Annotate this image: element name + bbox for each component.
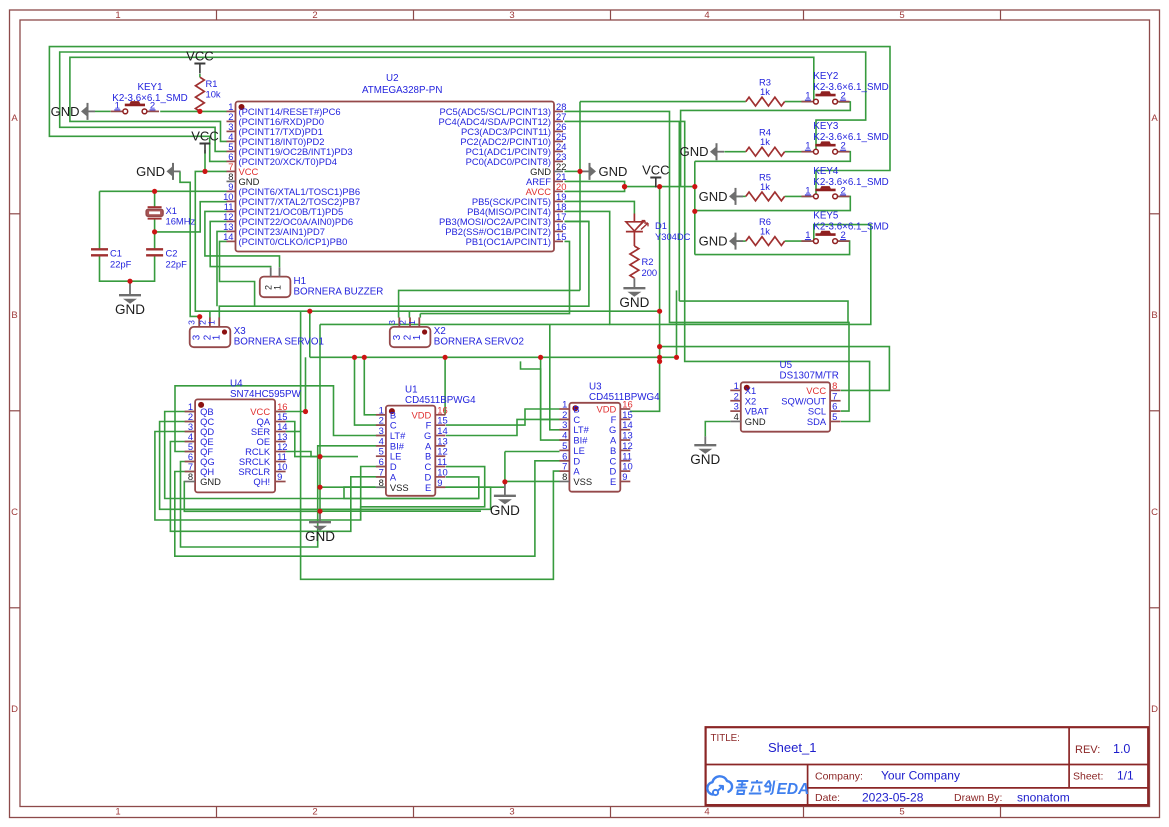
svg-text:Drawn By:: Drawn By: xyxy=(954,792,1002,804)
svg-text:9: 9 xyxy=(437,477,442,488)
svg-text:9: 9 xyxy=(277,471,282,482)
svg-text:E: E xyxy=(425,482,431,493)
svg-text:1: 1 xyxy=(207,320,217,325)
svg-text:1k: 1k xyxy=(760,136,770,147)
svg-text:D1: D1 xyxy=(655,220,667,231)
svg-text:B: B xyxy=(1151,310,1157,321)
svg-text:14: 14 xyxy=(437,425,447,436)
svg-text:6: 6 xyxy=(562,450,567,461)
svg-text:1k: 1k xyxy=(760,86,770,97)
svg-text:KEY5: KEY5 xyxy=(813,211,839,222)
svg-text:11: 11 xyxy=(437,456,447,467)
svg-text:TITLE:: TITLE: xyxy=(711,733,740,744)
svg-text:U3: U3 xyxy=(589,382,602,393)
svg-text:LE: LE xyxy=(390,451,401,462)
svg-text:REV:: REV: xyxy=(1075,744,1100,756)
svg-text:A: A xyxy=(610,435,617,446)
svg-text:4: 4 xyxy=(704,10,709,21)
svg-text:CD4511BPWG4: CD4511BPWG4 xyxy=(405,395,476,406)
svg-text:VDD: VDD xyxy=(412,409,432,420)
svg-text:X1: X1 xyxy=(166,205,177,216)
svg-text:12: 12 xyxy=(437,446,447,457)
svg-text:BI#: BI# xyxy=(390,440,405,451)
svg-text:VCC: VCC xyxy=(642,163,669,178)
svg-text:GND: GND xyxy=(305,529,335,544)
svg-text:1k: 1k xyxy=(760,181,770,192)
svg-text:VSS: VSS xyxy=(573,476,592,487)
svg-text:12: 12 xyxy=(622,440,632,451)
svg-text:D: D xyxy=(390,461,397,472)
svg-text:GND: GND xyxy=(200,476,221,487)
svg-text:2: 2 xyxy=(312,10,317,21)
svg-text:U2: U2 xyxy=(386,73,399,84)
svg-text:D: D xyxy=(11,704,18,715)
svg-text:D: D xyxy=(610,466,617,477)
svg-text:Sheet_1: Sheet_1 xyxy=(768,740,816,755)
svg-text:U5: U5 xyxy=(780,360,793,371)
svg-text:1: 1 xyxy=(412,335,423,340)
svg-text:1: 1 xyxy=(407,320,417,325)
svg-text:2023-05-28: 2023-05-28 xyxy=(862,791,924,805)
svg-text:3: 3 xyxy=(379,425,384,436)
svg-text:GND: GND xyxy=(51,104,80,119)
svg-text:3: 3 xyxy=(562,419,567,430)
svg-text:Sheet:: Sheet: xyxy=(1073,771,1103,783)
svg-text:10: 10 xyxy=(622,461,632,472)
svg-text:1k: 1k xyxy=(760,226,770,237)
svg-text:1: 1 xyxy=(379,404,384,415)
svg-text:ATMEGA328P-PN: ATMEGA328P-PN xyxy=(362,85,442,96)
svg-text:C: C xyxy=(11,507,18,518)
svg-text:GND: GND xyxy=(690,452,720,467)
svg-text:2: 2 xyxy=(312,807,317,818)
svg-text:A: A xyxy=(573,466,580,477)
svg-text:B: B xyxy=(425,451,431,462)
svg-text:C: C xyxy=(610,455,617,466)
svg-text:2: 2 xyxy=(379,415,384,426)
svg-text:8: 8 xyxy=(188,471,193,482)
svg-text:1: 1 xyxy=(115,10,120,21)
svg-text:G: G xyxy=(609,424,616,435)
svg-text:GND: GND xyxy=(599,164,628,179)
svg-text:5: 5 xyxy=(379,446,384,457)
svg-text:U4: U4 xyxy=(230,379,243,390)
svg-text:(PCINT0/CLKO/ICP1)PB0: (PCINT0/CLKO/ICP1)PB0 xyxy=(239,236,348,247)
svg-text:KEY2: KEY2 xyxy=(813,71,838,82)
svg-text:10k: 10k xyxy=(206,89,221,100)
svg-text:1: 1 xyxy=(272,285,282,290)
svg-text:13: 13 xyxy=(437,435,447,446)
svg-text:GND: GND xyxy=(699,189,728,204)
svg-text:6: 6 xyxy=(379,456,384,467)
svg-text:8: 8 xyxy=(379,477,384,488)
svg-text:7: 7 xyxy=(379,466,384,477)
svg-text:200: 200 xyxy=(642,267,658,278)
svg-text:11: 11 xyxy=(622,450,632,461)
svg-text:15: 15 xyxy=(622,409,632,420)
svg-text:GND: GND xyxy=(680,144,709,159)
svg-text:A: A xyxy=(390,471,397,482)
svg-text:B: B xyxy=(610,445,616,456)
svg-text:VDD: VDD xyxy=(597,404,617,415)
svg-text:F: F xyxy=(426,420,432,431)
svg-text:X1: X1 xyxy=(745,385,756,396)
svg-text:snonatom: snonatom xyxy=(1017,791,1070,805)
svg-text:VCC: VCC xyxy=(186,49,213,64)
svg-text:KEY1: KEY1 xyxy=(137,82,162,93)
svg-text:4: 4 xyxy=(704,807,709,818)
svg-text:C2: C2 xyxy=(166,248,178,259)
svg-text:Y304DC: Y304DC xyxy=(655,231,691,242)
svg-text:BI#: BI# xyxy=(573,435,588,446)
svg-text:GND: GND xyxy=(745,416,766,427)
svg-text:GND: GND xyxy=(699,234,728,249)
svg-text:X2: X2 xyxy=(745,395,756,406)
svg-text:E: E xyxy=(610,476,616,487)
svg-text:LE: LE xyxy=(573,445,584,456)
svg-text:Your Company: Your Company xyxy=(881,769,960,783)
svg-text:C: C xyxy=(425,461,432,472)
svg-text:3: 3 xyxy=(387,320,397,325)
svg-text:LT#: LT# xyxy=(573,424,589,435)
svg-text:9: 9 xyxy=(622,471,627,482)
svg-text:D: D xyxy=(425,471,432,482)
svg-text:3: 3 xyxy=(192,334,203,340)
svg-text:4: 4 xyxy=(379,435,384,446)
svg-text:GND: GND xyxy=(619,295,649,310)
svg-text:5: 5 xyxy=(562,440,567,451)
svg-text:GND: GND xyxy=(136,164,165,179)
svg-text:VCC: VCC xyxy=(191,129,218,144)
svg-text:22pF: 22pF xyxy=(110,259,132,270)
svg-text:H1: H1 xyxy=(294,276,307,287)
svg-text:SDA: SDA xyxy=(807,416,827,427)
svg-text:A: A xyxy=(425,440,432,451)
svg-text:VSS: VSS xyxy=(390,482,409,493)
svg-text:VBAT: VBAT xyxy=(745,406,769,417)
svg-text:LT#: LT# xyxy=(390,430,406,441)
svg-text:8: 8 xyxy=(832,380,837,391)
svg-text:1: 1 xyxy=(734,380,739,391)
svg-text:KEY4: KEY4 xyxy=(813,166,839,177)
svg-text:22pF: 22pF xyxy=(166,259,188,270)
svg-text:SCL: SCL xyxy=(808,406,826,417)
svg-text:3: 3 xyxy=(509,807,514,818)
svg-text:EDA: EDA xyxy=(777,781,810,798)
svg-text:X3: X3 xyxy=(234,326,247,337)
svg-text:10: 10 xyxy=(437,466,447,477)
svg-text:R2: R2 xyxy=(642,256,654,267)
svg-text:BORNERA SERVO1: BORNERA SERVO1 xyxy=(234,337,324,348)
svg-text:QH!: QH! xyxy=(253,476,270,487)
svg-text:D: D xyxy=(1151,704,1158,715)
svg-text:5: 5 xyxy=(899,807,904,818)
svg-text:C1: C1 xyxy=(110,248,122,259)
svg-text:VCC: VCC xyxy=(806,385,826,396)
svg-text:4: 4 xyxy=(734,411,739,422)
svg-text:4: 4 xyxy=(562,430,567,441)
svg-text:Date:: Date: xyxy=(815,792,840,804)
svg-text:SQW/OUT: SQW/OUT xyxy=(781,395,826,406)
svg-text:BORNERA BUZZER: BORNERA BUZZER xyxy=(294,287,384,298)
svg-text:SN74HC595PW: SN74HC595PW xyxy=(230,389,302,400)
svg-text:1/1: 1/1 xyxy=(1117,769,1134,783)
svg-text:1: 1 xyxy=(212,335,223,340)
svg-text:C: C xyxy=(390,420,397,431)
svg-text:B: B xyxy=(573,404,579,415)
svg-text:7: 7 xyxy=(562,461,567,472)
svg-text:U1: U1 xyxy=(405,385,418,396)
svg-text:R1: R1 xyxy=(206,78,218,89)
svg-text:14: 14 xyxy=(622,419,632,430)
svg-text:C: C xyxy=(1151,507,1158,518)
svg-text:13: 13 xyxy=(622,430,632,441)
svg-text:Company:: Company: xyxy=(815,771,863,783)
svg-text:BORNERA SERVO2: BORNERA SERVO2 xyxy=(434,337,524,348)
svg-text:G: G xyxy=(424,430,431,441)
svg-text:2: 2 xyxy=(734,390,739,401)
svg-text:5: 5 xyxy=(899,10,904,21)
svg-text:16MHz: 16MHz xyxy=(166,216,196,227)
svg-text:3: 3 xyxy=(187,320,197,325)
svg-text:1: 1 xyxy=(562,399,567,410)
svg-text:B: B xyxy=(390,409,396,420)
svg-text:GND: GND xyxy=(490,503,520,518)
svg-text:KEY3: KEY3 xyxy=(813,121,839,132)
svg-text:PB1(OC1A/PCINT1): PB1(OC1A/PCINT1) xyxy=(466,236,551,247)
svg-text:6: 6 xyxy=(832,401,837,412)
svg-text:1.0: 1.0 xyxy=(1113,742,1130,756)
svg-text:3: 3 xyxy=(509,10,514,21)
svg-text:15: 15 xyxy=(556,231,566,242)
svg-text:2: 2 xyxy=(562,409,567,420)
svg-text:15: 15 xyxy=(437,415,447,426)
svg-text:7: 7 xyxy=(832,390,837,401)
svg-text:3: 3 xyxy=(734,401,739,412)
svg-text:C: C xyxy=(573,414,580,425)
svg-text:14: 14 xyxy=(223,231,233,242)
svg-text:5: 5 xyxy=(832,411,837,422)
svg-text:F: F xyxy=(611,414,617,425)
svg-text:8: 8 xyxy=(562,471,567,482)
svg-text:3: 3 xyxy=(392,334,403,340)
svg-text:A: A xyxy=(1151,113,1158,124)
svg-text:B: B xyxy=(11,310,17,321)
svg-text:CD4511BPWG4: CD4511BPWG4 xyxy=(589,392,660,403)
svg-text:D: D xyxy=(573,455,580,466)
svg-text:DS1307M/TR: DS1307M/TR xyxy=(780,371,839,382)
svg-text:1: 1 xyxy=(115,807,120,818)
svg-text:X2: X2 xyxy=(434,326,446,337)
svg-text:A: A xyxy=(11,113,18,124)
svg-text:GND: GND xyxy=(115,302,145,317)
